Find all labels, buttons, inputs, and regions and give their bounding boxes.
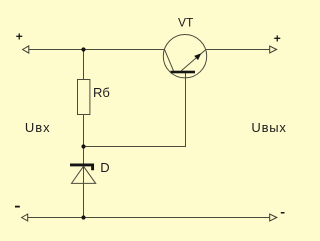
svg-text:Rб: Rб [93, 85, 110, 100]
svg-text:Uвх: Uвх [25, 120, 51, 135]
svg-text:D: D [100, 160, 109, 175]
svg-text:Uвых: Uвых [251, 120, 286, 135]
svg-text:+: + [16, 30, 23, 44]
svg-text:+: + [274, 32, 281, 46]
svg-text:VT: VT [178, 16, 194, 30]
